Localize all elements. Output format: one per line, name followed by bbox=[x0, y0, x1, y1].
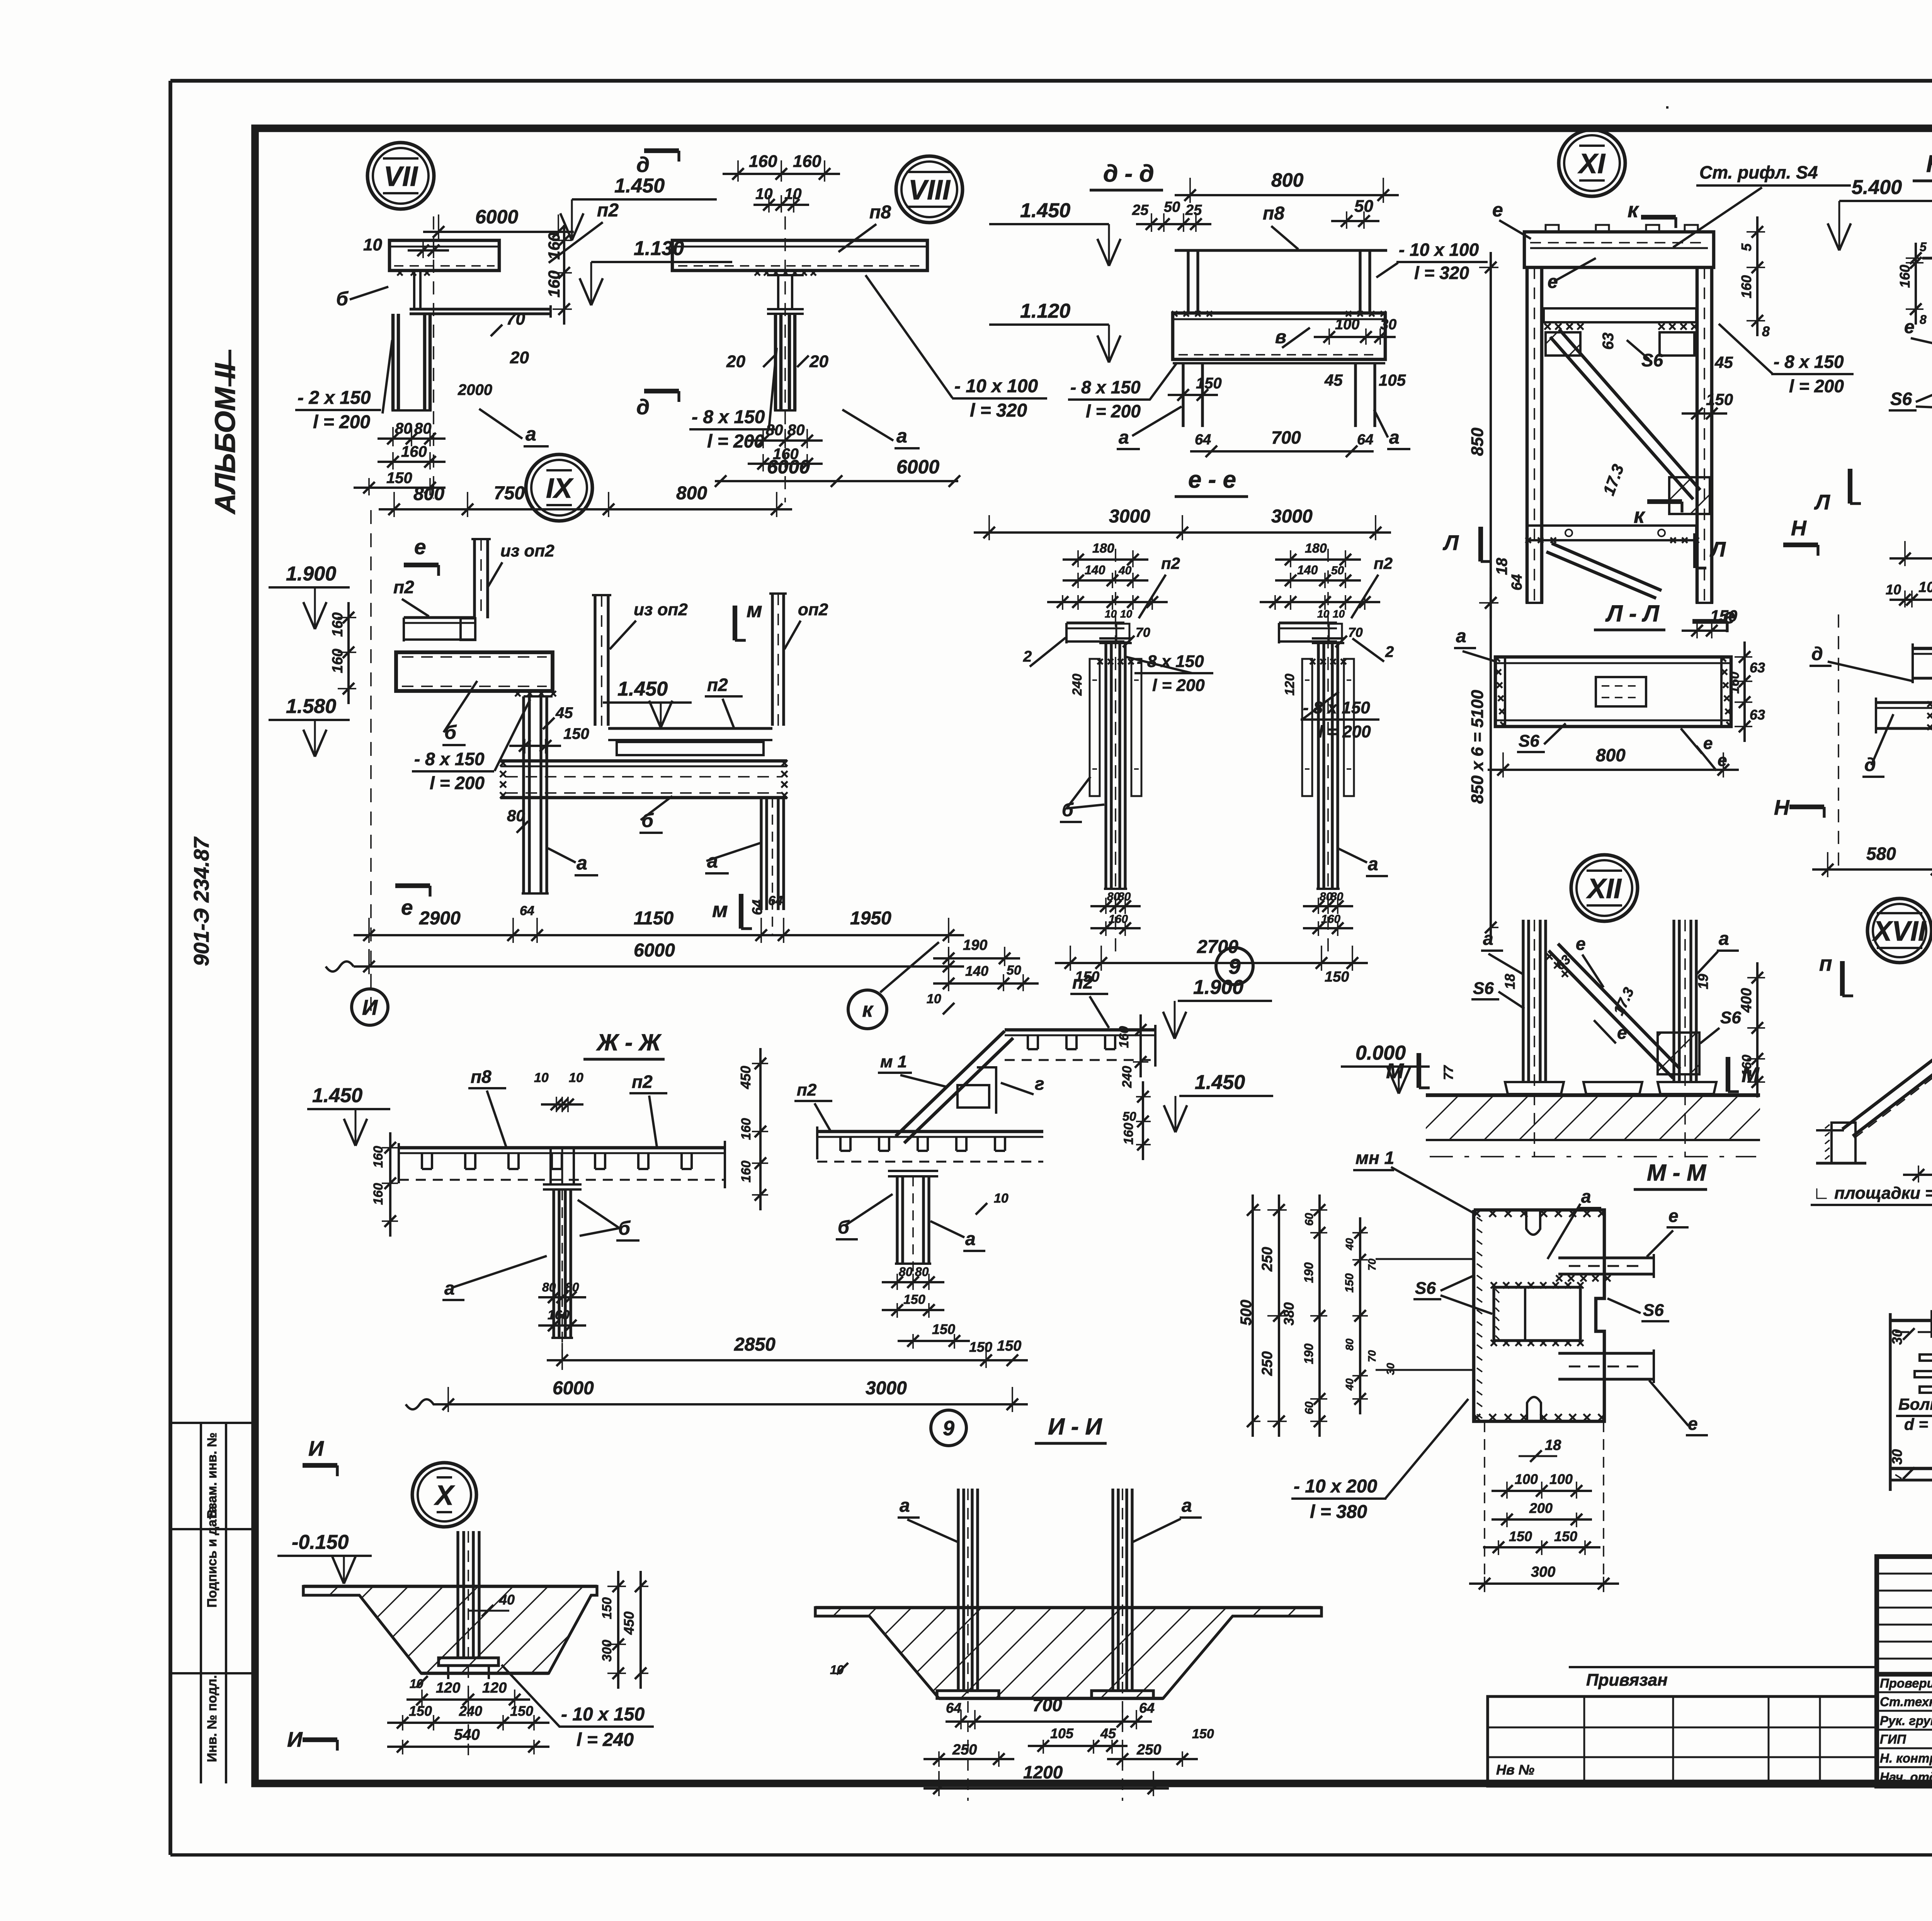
svg-text:1950: 1950 bbox=[850, 908, 891, 929]
svg-text:50: 50 bbox=[1007, 963, 1021, 978]
svg-text:60: 60 bbox=[1303, 1401, 1316, 1414]
svg-text:10: 10 bbox=[927, 992, 941, 1006]
svg-text:а: а bbox=[1389, 427, 1400, 448]
svg-text:3000: 3000 bbox=[1271, 506, 1313, 527]
svg-text:70: 70 bbox=[506, 310, 525, 328]
svg-text:105: 105 bbox=[1379, 371, 1406, 389]
svg-text:8: 8 bbox=[1920, 313, 1927, 327]
svg-text:64: 64 bbox=[946, 1700, 961, 1716]
svg-text:а: а bbox=[1581, 1186, 1591, 1206]
svg-text:l = 320: l = 320 bbox=[970, 400, 1027, 421]
svg-text:80: 80 bbox=[915, 1265, 929, 1279]
svg-text:80: 80 bbox=[787, 422, 805, 439]
svg-text:40: 40 bbox=[1344, 1378, 1355, 1391]
svg-text:а: а bbox=[526, 423, 536, 445]
svg-text:мн 1: мн 1 bbox=[1355, 1148, 1394, 1168]
svg-text:е: е bbox=[1904, 317, 1915, 337]
svg-text:Л - Л: Л - Л bbox=[1605, 601, 1660, 626]
svg-text:80: 80 bbox=[899, 1265, 913, 1279]
svg-text:из оп2: из оп2 bbox=[634, 600, 688, 619]
svg-text:п2: п2 bbox=[597, 200, 619, 221]
svg-text:XI: XI bbox=[1577, 148, 1606, 179]
svg-text:70: 70 bbox=[1366, 1350, 1378, 1362]
svg-text:б: б bbox=[618, 1217, 631, 1239]
svg-text:2850: 2850 bbox=[734, 1334, 776, 1355]
svg-text:70: 70 bbox=[1136, 625, 1150, 640]
svg-text:1.900: 1.900 bbox=[286, 563, 336, 585]
svg-text:Проверил: Проверил bbox=[1880, 1676, 1932, 1690]
svg-text:е: е bbox=[1703, 734, 1713, 753]
svg-text:19: 19 bbox=[1695, 974, 1711, 989]
svg-text:п: п bbox=[1819, 951, 1832, 975]
svg-text:10: 10 bbox=[569, 1070, 583, 1085]
svg-text:160: 160 bbox=[1727, 672, 1742, 694]
svg-text:1.900: 1.900 bbox=[1193, 976, 1243, 999]
svg-text:5.400: 5.400 bbox=[1852, 176, 1902, 199]
svg-text:l = 200: l = 200 bbox=[1789, 376, 1844, 396]
svg-text:140: 140 bbox=[965, 963, 988, 979]
svg-text:100: 100 bbox=[1549, 1471, 1573, 1487]
svg-text:а: а bbox=[1368, 854, 1378, 875]
svg-text:64: 64 bbox=[1357, 432, 1373, 448]
svg-text:250: 250 bbox=[1259, 1247, 1276, 1272]
svg-text:Л: Л bbox=[1709, 537, 1726, 561]
svg-text:10: 10 bbox=[534, 1070, 549, 1085]
svg-text:800: 800 bbox=[413, 484, 444, 504]
svg-text:l = 200: l = 200 bbox=[1152, 676, 1205, 695]
svg-text:2: 2 bbox=[1385, 643, 1394, 660]
svg-text:1.450: 1.450 bbox=[312, 1084, 362, 1107]
svg-text:40: 40 bbox=[499, 1592, 515, 1608]
svg-text:Ж - Ж: Ж - Ж bbox=[596, 1029, 662, 1055]
svg-text:- 10 x 150: - 10 x 150 bbox=[561, 1704, 645, 1725]
svg-text:а: а bbox=[444, 1278, 455, 1299]
svg-text:п2: п2 bbox=[1072, 972, 1093, 992]
svg-text:а: а bbox=[900, 1496, 910, 1516]
svg-text:б: б bbox=[838, 1217, 850, 1238]
svg-text:450: 450 bbox=[621, 1611, 637, 1635]
svg-text:VII: VII bbox=[384, 161, 418, 192]
svg-text:240: 240 bbox=[459, 1703, 482, 1719]
svg-text:- 8 x 150: - 8 x 150 bbox=[1070, 377, 1141, 397]
svg-text:160: 160 bbox=[1121, 1123, 1136, 1145]
svg-text:160: 160 bbox=[749, 152, 777, 171]
svg-text:е: е bbox=[1617, 1023, 1627, 1043]
svg-text:580: 580 bbox=[1866, 844, 1896, 864]
svg-text:б: б bbox=[336, 288, 349, 310]
svg-text:X: X bbox=[434, 1480, 455, 1511]
svg-text:И - И: И - И bbox=[1048, 1414, 1102, 1439]
svg-text:И: И bbox=[308, 1436, 324, 1460]
svg-text:- 10 x 100: - 10 x 100 bbox=[1399, 240, 1479, 260]
svg-text:190: 190 bbox=[1302, 1262, 1316, 1283]
svg-text:30: 30 bbox=[1889, 1329, 1905, 1345]
svg-text:а: а bbox=[1483, 929, 1493, 949]
svg-text:п2: п2 bbox=[393, 577, 414, 597]
svg-text:250: 250 bbox=[1136, 1742, 1161, 1758]
svg-text:30: 30 bbox=[1889, 1449, 1905, 1465]
svg-text:240: 240 bbox=[1070, 674, 1085, 696]
svg-text:450: 450 bbox=[738, 1066, 753, 1089]
svg-text:S6: S6 bbox=[1641, 350, 1663, 370]
svg-text:д: д bbox=[636, 153, 650, 177]
svg-text:120: 120 bbox=[482, 1680, 507, 1696]
svg-text:150: 150 bbox=[1325, 969, 1349, 985]
svg-text:160: 160 bbox=[401, 443, 427, 460]
svg-text:1.580: 1.580 bbox=[286, 695, 336, 718]
svg-text:8: 8 bbox=[1762, 323, 1770, 339]
svg-text:п8: п8 bbox=[471, 1067, 492, 1087]
svg-text:S6: S6 bbox=[1643, 1301, 1664, 1320]
svg-text:е - е: е - е bbox=[1188, 466, 1236, 493]
svg-text:64: 64 bbox=[1139, 1700, 1155, 1716]
svg-text:160: 160 bbox=[1740, 1055, 1754, 1077]
svg-text:10: 10 bbox=[1317, 608, 1330, 620]
svg-text:40: 40 bbox=[1344, 1238, 1355, 1251]
svg-text:45: 45 bbox=[1714, 353, 1733, 371]
svg-text:63: 63 bbox=[1600, 333, 1617, 350]
svg-text:180: 180 bbox=[1092, 541, 1114, 556]
svg-text:150: 150 bbox=[600, 1597, 614, 1619]
svg-text:l = 200: l = 200 bbox=[313, 412, 370, 432]
svg-text:к: к bbox=[862, 998, 874, 1021]
svg-text:9: 9 bbox=[943, 1417, 954, 1440]
svg-text:250: 250 bbox=[1259, 1351, 1276, 1376]
svg-text:10: 10 bbox=[784, 185, 802, 202]
svg-text:25: 25 bbox=[1132, 202, 1149, 218]
svg-text:150: 150 bbox=[969, 1339, 992, 1355]
svg-text:Л: Л bbox=[1814, 490, 1830, 514]
svg-text:64: 64 bbox=[1509, 574, 1525, 590]
svg-text:180: 180 bbox=[1305, 541, 1327, 556]
svg-text:VIII: VIII bbox=[908, 175, 951, 206]
svg-text:1.450: 1.450 bbox=[1020, 199, 1070, 222]
svg-text:е: е bbox=[1723, 604, 1735, 628]
svg-text:6000: 6000 bbox=[553, 1378, 594, 1399]
svg-text:160: 160 bbox=[1897, 265, 1913, 288]
svg-text:160: 160 bbox=[1109, 913, 1128, 926]
svg-text:п2: п2 bbox=[1161, 554, 1180, 572]
svg-text:6000: 6000 bbox=[475, 206, 518, 228]
svg-text:из оп2: из оп2 bbox=[500, 541, 554, 560]
svg-text:50: 50 bbox=[1122, 1109, 1136, 1123]
svg-text:80: 80 bbox=[1344, 1338, 1355, 1351]
svg-text:160: 160 bbox=[330, 613, 346, 637]
svg-text:160: 160 bbox=[1321, 913, 1340, 926]
svg-text:150: 150 bbox=[932, 1321, 955, 1337]
svg-text:- 8 x 150: - 8 x 150 bbox=[692, 407, 765, 427]
svg-text:АЛЬБОМ II: АЛЬБОМ II bbox=[209, 363, 241, 515]
svg-text:а: а bbox=[577, 852, 587, 874]
svg-text:160: 160 bbox=[330, 649, 346, 673]
svg-text:10: 10 bbox=[363, 235, 382, 254]
svg-text:в: в bbox=[1275, 327, 1286, 347]
svg-text:140: 140 bbox=[1297, 563, 1318, 577]
svg-text:400: 400 bbox=[1738, 988, 1755, 1013]
svg-text:S6: S6 bbox=[1519, 732, 1539, 750]
svg-text:150: 150 bbox=[1509, 1528, 1532, 1544]
svg-text:50: 50 bbox=[1331, 564, 1344, 577]
svg-text:Болты: Болты bbox=[1898, 1395, 1932, 1413]
svg-text:6000: 6000 bbox=[767, 456, 810, 478]
svg-text:а: а bbox=[1182, 1496, 1192, 1516]
svg-text:- 8 x 150: - 8 x 150 bbox=[1303, 698, 1370, 717]
svg-text:- 10 x 200: - 10 x 200 bbox=[1294, 1476, 1377, 1497]
svg-text:160: 160 bbox=[548, 1308, 570, 1322]
svg-text:45: 45 bbox=[1100, 1725, 1116, 1741]
svg-text:- 8 x 150: - 8 x 150 bbox=[414, 749, 485, 769]
svg-text:300: 300 bbox=[1531, 1564, 1555, 1580]
svg-text:- 10 x 100: - 10 x 100 bbox=[954, 376, 1038, 396]
svg-text:д: д bbox=[636, 395, 650, 419]
svg-text:30: 30 bbox=[1384, 1363, 1396, 1375]
svg-text:И: И bbox=[362, 995, 378, 1019]
svg-text:10: 10 bbox=[1886, 582, 1901, 597]
svg-text:м 1: м 1 bbox=[880, 1052, 907, 1071]
svg-text:- 2 x 150: - 2 x 150 bbox=[298, 388, 371, 408]
svg-text:∟ площадки = 5400: ∟ площадки = 5400 bbox=[1813, 1184, 1932, 1203]
svg-text:п2: п2 bbox=[1374, 554, 1393, 572]
svg-text:м: м bbox=[712, 898, 728, 922]
svg-text:п8: п8 bbox=[1263, 203, 1284, 224]
svg-text:е: е bbox=[1688, 1414, 1698, 1434]
svg-text:к: к bbox=[1628, 198, 1639, 222]
svg-text:160: 160 bbox=[793, 152, 821, 171]
svg-text:800: 800 bbox=[676, 483, 707, 504]
svg-text:50: 50 bbox=[1164, 199, 1180, 215]
svg-text:l = 200: l = 200 bbox=[1086, 401, 1141, 421]
svg-text:1.450: 1.450 bbox=[1195, 1071, 1245, 1094]
svg-text:150: 150 bbox=[1192, 1727, 1214, 1741]
svg-text:18: 18 bbox=[1493, 558, 1510, 575]
svg-text:Подпись и дата: Подпись и дата bbox=[205, 1505, 219, 1608]
svg-text:63: 63 bbox=[1750, 660, 1765, 675]
svg-text:63: 63 bbox=[1750, 707, 1765, 723]
svg-text:5: 5 bbox=[1738, 243, 1754, 251]
svg-text:1200: 1200 bbox=[1023, 1762, 1063, 1782]
svg-text:а: а bbox=[1456, 626, 1466, 647]
svg-text:е: е bbox=[414, 535, 426, 559]
svg-text:700: 700 bbox=[1271, 427, 1301, 447]
svg-text:1.450: 1.450 bbox=[614, 175, 665, 197]
svg-text:200: 200 bbox=[1529, 1500, 1553, 1516]
svg-text:901-Э 234.87: 901-Э 234.87 bbox=[189, 836, 213, 966]
svg-text:2: 2 bbox=[1023, 648, 1032, 665]
svg-text:18: 18 bbox=[1502, 974, 1518, 989]
svg-text:3000: 3000 bbox=[866, 1378, 907, 1399]
svg-text:2000: 2000 bbox=[457, 381, 492, 398]
svg-text:6000: 6000 bbox=[634, 940, 675, 961]
svg-text:250: 250 bbox=[952, 1742, 977, 1758]
svg-text:е: е bbox=[401, 895, 413, 919]
svg-text:К - К: К - К bbox=[1926, 151, 1932, 177]
svg-text:п8: п8 bbox=[869, 202, 891, 223]
svg-text:1150: 1150 bbox=[634, 908, 674, 929]
svg-text:г: г bbox=[1035, 1074, 1044, 1094]
svg-text:Л: Л bbox=[1442, 531, 1459, 555]
svg-text:800: 800 bbox=[1596, 745, 1626, 765]
svg-text:а: а bbox=[1719, 929, 1729, 949]
svg-text:140: 140 bbox=[1085, 563, 1105, 577]
svg-text:Взам. инв. №: Взам. инв. № bbox=[205, 1433, 219, 1519]
svg-text:160: 160 bbox=[371, 1146, 386, 1168]
svg-text:80: 80 bbox=[766, 422, 783, 439]
svg-text:д - д: д - д bbox=[1103, 160, 1154, 187]
svg-text:80: 80 bbox=[1330, 890, 1344, 903]
svg-text:б: б bbox=[641, 810, 654, 831]
svg-text:10: 10 bbox=[1105, 608, 1117, 620]
svg-text:10: 10 bbox=[1333, 608, 1345, 620]
svg-text:а: а bbox=[1119, 427, 1129, 448]
svg-text:l = 200: l = 200 bbox=[430, 773, 485, 793]
svg-text:S6: S6 bbox=[1473, 979, 1494, 998]
svg-text:25: 25 bbox=[1185, 202, 1202, 218]
svg-text:160: 160 bbox=[739, 1118, 753, 1140]
svg-text:10: 10 bbox=[994, 1191, 1009, 1206]
svg-text:И: И bbox=[287, 1727, 303, 1751]
svg-text:1.450: 1.450 bbox=[617, 678, 668, 700]
svg-text:м: м bbox=[747, 598, 762, 622]
svg-text:150: 150 bbox=[409, 1703, 432, 1719]
svg-text:S6: S6 bbox=[1890, 389, 1912, 409]
svg-text:45: 45 bbox=[555, 704, 573, 721]
svg-text:80: 80 bbox=[565, 1280, 579, 1294]
svg-text:п2: п2 bbox=[707, 675, 728, 695]
svg-text:380: 380 bbox=[1281, 1302, 1297, 1325]
svg-text:160: 160 bbox=[1117, 1026, 1131, 1048]
svg-text:64: 64 bbox=[749, 900, 765, 915]
svg-text:10: 10 bbox=[1120, 608, 1133, 620]
svg-text:5: 5 bbox=[1920, 240, 1927, 254]
svg-text:3000: 3000 bbox=[1109, 506, 1150, 527]
svg-text:70: 70 bbox=[1366, 1258, 1378, 1271]
svg-text:160: 160 bbox=[545, 271, 563, 298]
svg-text:20: 20 bbox=[726, 352, 745, 371]
svg-text:к: к bbox=[1634, 504, 1646, 527]
svg-text:150: 150 bbox=[386, 470, 412, 487]
svg-text:77: 77 bbox=[1441, 1065, 1456, 1080]
svg-text:700: 700 bbox=[1032, 1695, 1062, 1715]
svg-text:160: 160 bbox=[1738, 275, 1754, 298]
svg-text:оп2: оп2 bbox=[798, 600, 828, 619]
svg-text:160: 160 bbox=[371, 1183, 386, 1205]
svg-text:750: 750 bbox=[494, 483, 525, 504]
svg-text:540: 540 bbox=[454, 1726, 480, 1743]
svg-text:105: 105 bbox=[1050, 1725, 1074, 1741]
svg-text:20: 20 bbox=[510, 348, 529, 367]
svg-text:150: 150 bbox=[1554, 1528, 1577, 1544]
svg-text:300: 300 bbox=[600, 1640, 614, 1662]
svg-text:п2: п2 bbox=[632, 1072, 653, 1092]
svg-text:80: 80 bbox=[1118, 890, 1131, 903]
svg-text:150: 150 bbox=[510, 1703, 533, 1719]
svg-text:Нач. отд: Нач. отд bbox=[1880, 1770, 1932, 1784]
svg-text:150: 150 bbox=[903, 1292, 925, 1307]
svg-text:100: 100 bbox=[1335, 316, 1359, 333]
svg-text:е: е bbox=[1576, 934, 1586, 954]
svg-text:20: 20 bbox=[809, 352, 828, 371]
svg-text:Рук. груп: Рук. груп bbox=[1880, 1713, 1932, 1728]
svg-text:е: е bbox=[1668, 1206, 1679, 1226]
svg-text:100: 100 bbox=[1918, 579, 1932, 596]
svg-text:Н: Н bbox=[1791, 516, 1807, 540]
svg-text:800: 800 bbox=[1271, 169, 1304, 191]
svg-text:80: 80 bbox=[414, 420, 432, 437]
svg-text:850: 850 bbox=[1468, 427, 1487, 456]
svg-text:п2: п2 bbox=[797, 1080, 817, 1099]
svg-text:100: 100 bbox=[1515, 1471, 1538, 1487]
svg-text:l = 200: l = 200 bbox=[1318, 722, 1371, 741]
svg-text:240: 240 bbox=[1120, 1066, 1134, 1088]
svg-text:64: 64 bbox=[768, 893, 783, 908]
svg-text:120: 120 bbox=[436, 1680, 460, 1696]
svg-text:190: 190 bbox=[1302, 1343, 1316, 1364]
svg-text:М: М bbox=[1386, 1059, 1404, 1083]
svg-text:а: а bbox=[896, 425, 907, 447]
svg-text:10: 10 bbox=[755, 185, 773, 202]
svg-text:120: 120 bbox=[1282, 674, 1297, 696]
svg-text:Ст. рифл. S4: Ст. рифл. S4 bbox=[1699, 162, 1818, 182]
svg-text:е: е bbox=[1548, 272, 1558, 292]
svg-text:80: 80 bbox=[507, 807, 525, 825]
svg-text:40: 40 bbox=[1118, 564, 1132, 577]
svg-text:190: 190 bbox=[963, 937, 987, 953]
svg-text:l = 240: l = 240 bbox=[577, 1730, 634, 1750]
svg-text:150: 150 bbox=[1196, 375, 1222, 392]
svg-text:Привязан: Привязан bbox=[1586, 1671, 1668, 1690]
svg-text:150: 150 bbox=[563, 725, 589, 742]
svg-text:150: 150 bbox=[1343, 1273, 1356, 1293]
svg-text:Н: Н bbox=[1774, 795, 1790, 819]
svg-text:160: 160 bbox=[545, 233, 563, 260]
svg-text:64: 64 bbox=[1195, 432, 1211, 448]
svg-text:Н. контр: Н. контр bbox=[1880, 1751, 1932, 1765]
svg-text:60: 60 bbox=[1303, 1213, 1316, 1226]
svg-text:160: 160 bbox=[739, 1160, 753, 1183]
svg-text:е: е bbox=[1492, 199, 1503, 221]
svg-text:45: 45 bbox=[1324, 371, 1343, 389]
svg-text:l = 320: l = 320 bbox=[1414, 263, 1469, 283]
svg-text:ГИП: ГИП bbox=[1880, 1732, 1906, 1746]
svg-text:Ст.техник: Ст.техник bbox=[1880, 1695, 1932, 1709]
svg-text:-0.150: -0.150 bbox=[292, 1531, 349, 1553]
svg-text:80: 80 bbox=[542, 1280, 556, 1294]
svg-text:6000: 6000 bbox=[896, 456, 939, 478]
svg-text:Инв. № подл.: Инв. № подл. bbox=[205, 1675, 219, 1762]
svg-text:64: 64 bbox=[520, 903, 534, 918]
svg-text:l = 380: l = 380 bbox=[1310, 1502, 1367, 1522]
svg-text:850 x 6 = 5100: 850 x 6 = 5100 bbox=[1468, 690, 1487, 804]
svg-text:XVII: XVII bbox=[1872, 916, 1927, 947]
svg-text:1.120: 1.120 bbox=[1020, 300, 1070, 322]
svg-text:М - М: М - М bbox=[1647, 1160, 1707, 1186]
svg-text:2900: 2900 bbox=[419, 908, 461, 929]
svg-text:д: д bbox=[1811, 644, 1823, 664]
svg-text:150: 150 bbox=[997, 1338, 1021, 1354]
svg-text:70: 70 bbox=[1348, 625, 1363, 640]
svg-text:30: 30 bbox=[1380, 316, 1396, 333]
svg-text:9: 9 bbox=[1228, 954, 1240, 978]
svg-text:S6: S6 bbox=[1415, 1279, 1436, 1298]
svg-text:Нв №: Нв № bbox=[1496, 1762, 1534, 1778]
svg-text:а: а bbox=[965, 1229, 976, 1249]
svg-text:- 8 x 150: - 8 x 150 bbox=[1774, 352, 1844, 372]
svg-text:IX: IX bbox=[546, 473, 574, 504]
svg-text:XII: XII bbox=[1586, 873, 1622, 904]
svg-text:б: б bbox=[444, 721, 457, 743]
svg-text:18: 18 bbox=[1545, 1437, 1561, 1453]
svg-text:150: 150 bbox=[1706, 390, 1733, 408]
